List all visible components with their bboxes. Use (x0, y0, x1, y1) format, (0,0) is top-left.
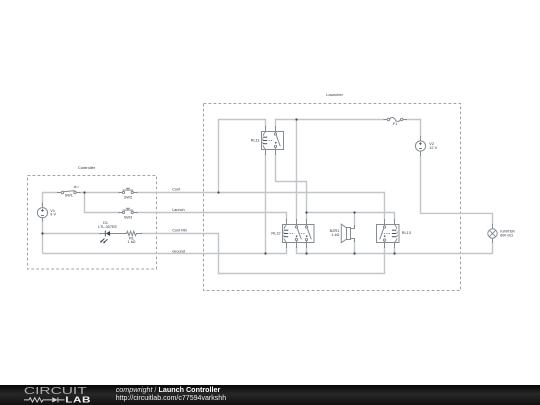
svg-text:RL11: RL11 (251, 139, 260, 143)
resistor R1 (127, 231, 137, 235)
pin igniter top (492, 225, 494, 229)
svg-text:Cont: Cont (172, 187, 181, 191)
pin RL13 contact top (384, 220, 386, 226)
svg-text:F1: F1 (393, 122, 397, 126)
switch SW1 (61, 186, 79, 194)
pin RL11 contact bottom (275, 148, 277, 155)
svg-text:600 mΩ: 600 mΩ (500, 234, 513, 238)
pin RL12 coil bottom (286, 243, 288, 248)
lamp IGNITER (488, 229, 497, 238)
wire firing rail RL12 to igniter (297, 243, 493, 254)
svg-text:compwright / Launch Controller: compwright / Launch Controller (116, 385, 221, 394)
wire RL11 contact to fuse F1 (276, 120, 386, 127)
svg-text:12 V: 12 V (429, 146, 437, 150)
wire RL11 contact to RL12 contact 2 (276, 154, 307, 221)
wire Cont Rtn net R1 to RL13 contact (141, 234, 385, 274)
svg-text:9 V: 9 V (50, 213, 56, 217)
junction firing rail RL13 (393, 252, 395, 254)
svg-text:SW2: SW2 (124, 196, 132, 200)
wire ground branch to LED D1 (43, 233, 102, 235)
pin BZR1 plus (351, 226, 355, 229)
junction Cont RL11 coil tap (217, 191, 219, 193)
pin SW3 right (133, 212, 137, 214)
pin V2 negative (420, 151, 422, 155)
wire Ground net to RL12 coil (43, 247, 287, 254)
svg-text:Cont Rtn: Cont Rtn (172, 228, 187, 232)
pushbutton SW3 (122, 208, 133, 213)
wire test net to RL13 coil (307, 213, 395, 221)
pin RL12 contact2 top (306, 220, 308, 226)
pin SW1 left (58, 192, 62, 194)
relay RL11 (262, 132, 284, 150)
wire SW1 to SW2 (79, 192, 120, 194)
wire Cont net SW2 to RL13 contact (136, 193, 385, 221)
wire buzzer top to test net (354, 213, 356, 227)
junction firing rail RL12 (305, 252, 307, 254)
svg-text:Launch: Launch (172, 208, 184, 212)
svg-text:SW1: SW1 (65, 194, 73, 198)
pin SW2 left (119, 192, 122, 194)
wire buzzer bottom to firing rail (354, 241, 356, 254)
launcher enclosure box (204, 104, 461, 291)
wire Cont tap to RL11 coil (219, 120, 266, 193)
wire RL11 coil to ground rail (265, 154, 267, 254)
svg-text:http://circuitlab.com/c77594va: http://circuitlab.com/c77594varkshh (116, 395, 227, 402)
pin F1 right (403, 119, 407, 121)
wire Launch net SW3 to RL12 coil (136, 213, 287, 221)
svg-text:Controller: Controller (78, 165, 96, 170)
wire RL13 coil to firing rail (394, 247, 396, 254)
pin RL11 coil bottom (265, 150, 267, 155)
pin V1 negative (42, 218, 44, 221)
pin RL12 contact1 top (296, 220, 298, 226)
junction ground rail RL11 (264, 252, 266, 254)
pin RL12 contact2 bottom (306, 241, 308, 248)
svg-text:1 kΩ: 1 kΩ (128, 240, 136, 244)
battery V2 (415, 141, 425, 151)
svg-text:RL12: RL12 (271, 231, 280, 235)
junction test net buzzer (353, 211, 355, 213)
svg-text:Ground: Ground (172, 249, 185, 253)
pin SW3 left (119, 212, 122, 214)
svg-text:CIRCUIT: CIRCUIT (24, 385, 87, 397)
pin RL13 coil top (394, 220, 396, 225)
pin RL12 contact1 bottom (296, 241, 298, 248)
pin F1 left (384, 119, 387, 121)
junction firing rail buzzer (353, 252, 355, 254)
svg-text:Launcher: Launcher (326, 92, 343, 97)
pin RL13 contact bottom (384, 241, 386, 247)
pin RL12 coil top (286, 220, 288, 225)
pin D1 anode to R1 (110, 233, 126, 235)
relay RL12 (283, 225, 315, 243)
pin BZR1 minus (351, 239, 355, 242)
footer bar (0, 385, 540, 405)
wire V2 negative to igniter (421, 155, 493, 225)
svg-text:1 kΩ: 1 kΩ (331, 233, 339, 237)
pin RL13 coil bottom (394, 243, 396, 248)
svg-text:RL13: RL13 (402, 231, 411, 235)
svg-text:LAB: LAB (65, 396, 91, 405)
wire node A to SW3 (85, 193, 121, 213)
pin SW2 right (133, 192, 137, 194)
wire V1 positive to SW1 (43, 193, 59, 207)
pin V2 positive (420, 137, 422, 141)
svg-text:SW3: SW3 (124, 216, 132, 220)
pushbutton SW2 (122, 188, 133, 193)
LED D1 (100, 231, 110, 244)
buzzer BZR1 (341, 224, 350, 243)
wire battery feed to RL12 contact 1 (296, 120, 298, 221)
pin RL11 contact top (275, 127, 277, 133)
junction V1 negative branch (41, 232, 43, 234)
wire V1 negative to ground rail (42, 220, 44, 254)
wire fuse F1 to V2 positive (405, 120, 421, 138)
pin igniter bottom (492, 238, 494, 242)
pin V1 positive (42, 203, 44, 208)
junction test net RL12 (305, 211, 307, 213)
node A junction (83, 191, 85, 193)
pin D1 cathode (100, 233, 105, 235)
footer logo diode glyph (52, 397, 64, 402)
pin R1 right (137, 233, 142, 235)
battery V1 (37, 208, 47, 218)
controller enclosure box (28, 176, 157, 270)
pin RL11 coil top (265, 127, 267, 132)
svg-text:LTL-307EE: LTL-307EE (98, 225, 117, 229)
pin SW1 right (76, 192, 80, 194)
relay RL13 (377, 225, 400, 243)
footer logo resistor glyph (24, 398, 52, 402)
junction battery feed tap (295, 118, 297, 120)
wire RL12 contact 2 to firing rail (306, 247, 308, 254)
fuse F1 (387, 117, 403, 121)
